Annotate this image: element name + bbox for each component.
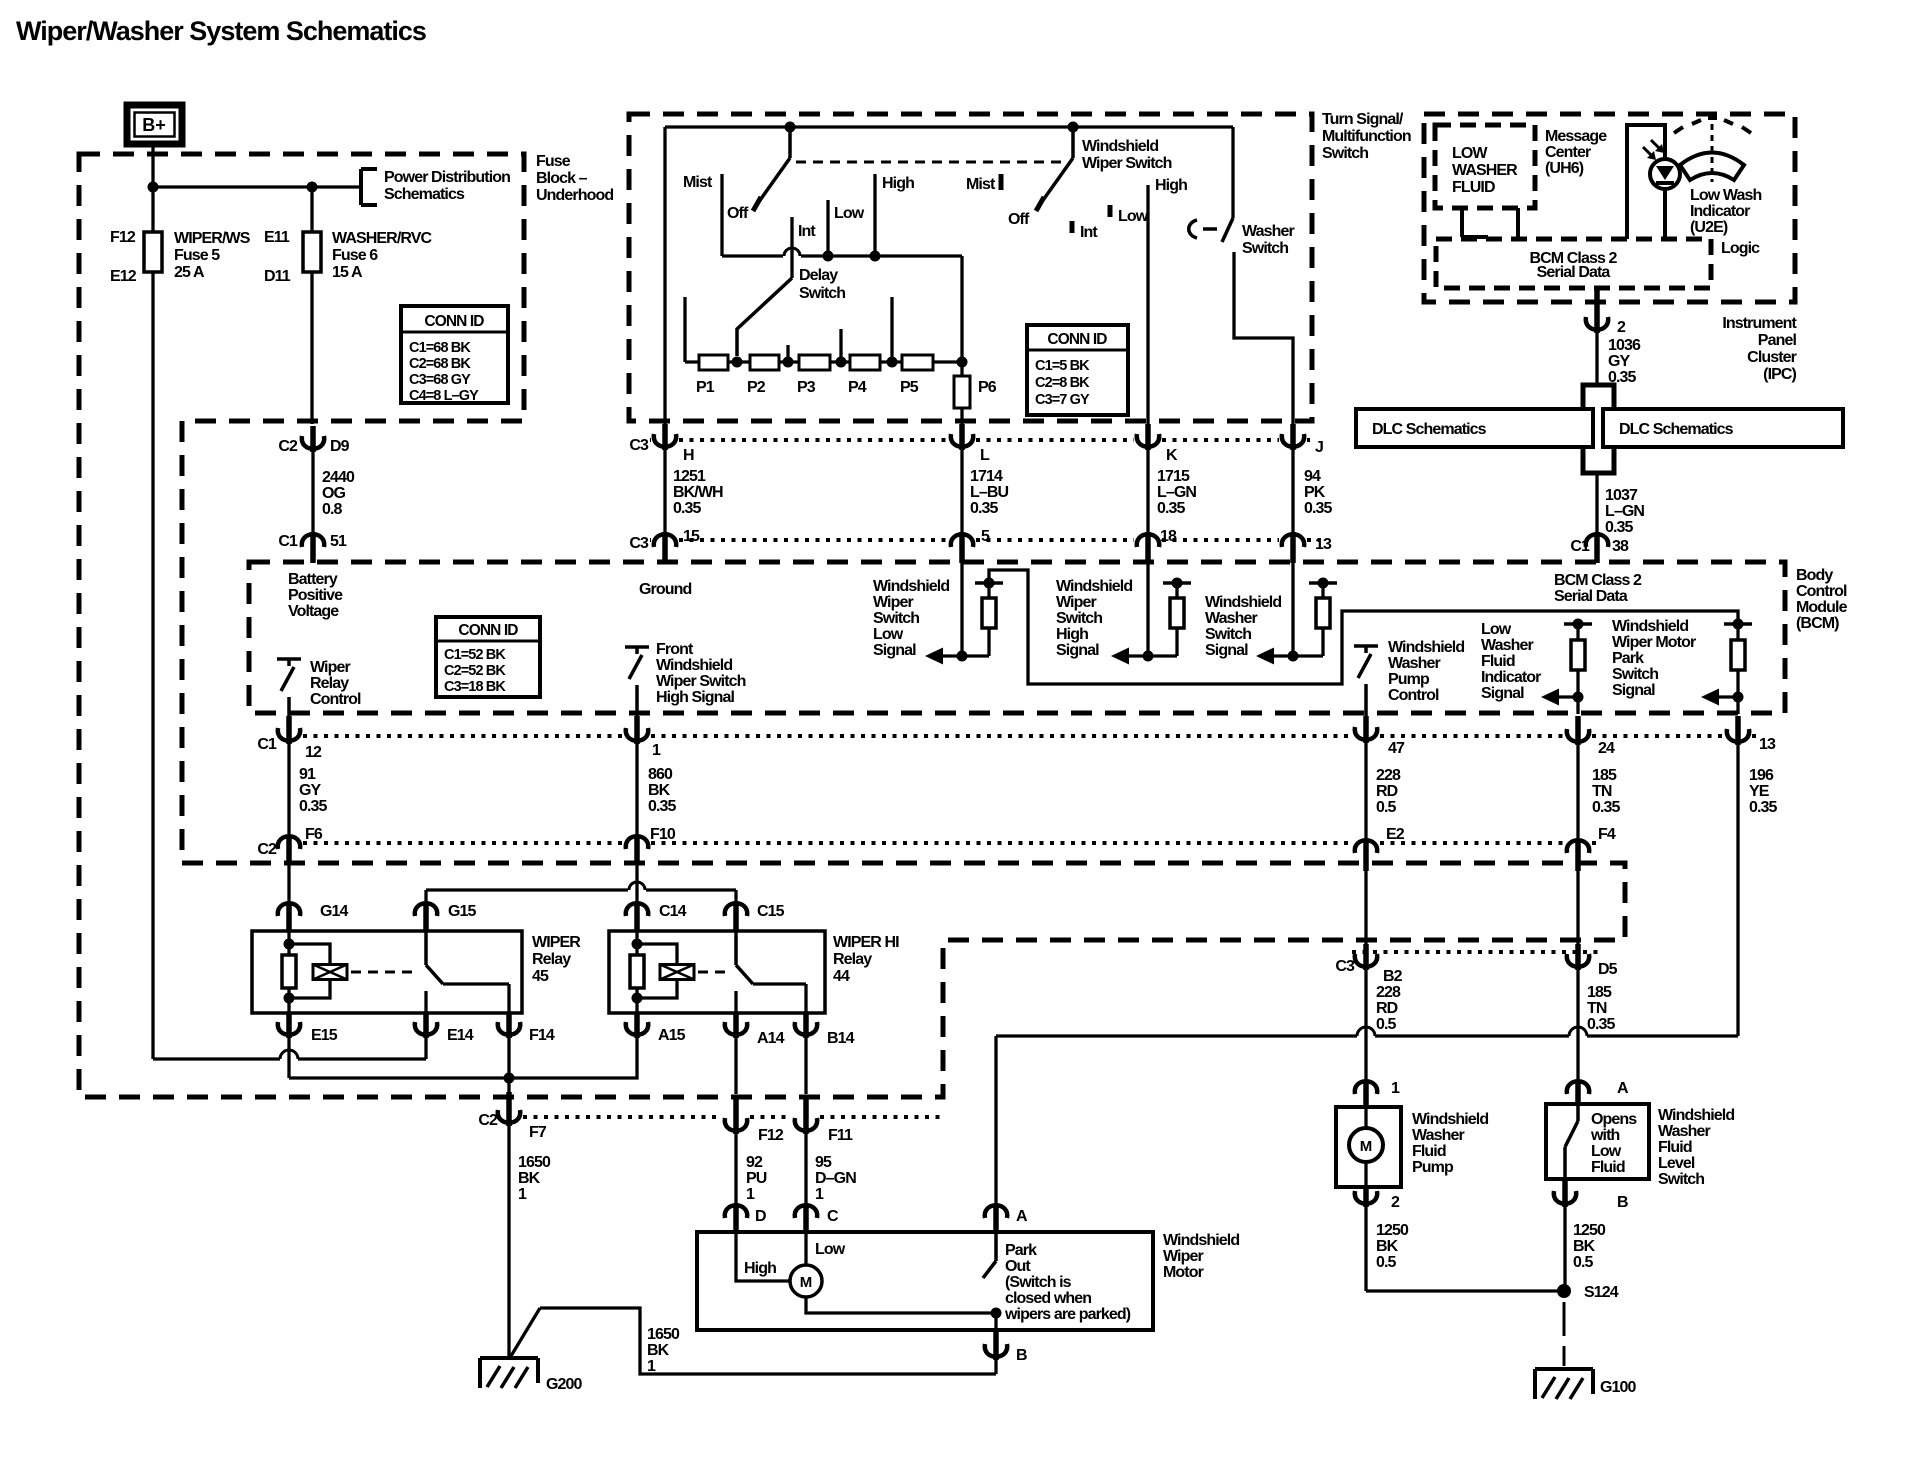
svg-text:Fluid: Fluid [1412,1143,1446,1160]
svg-text:Message: Message [1545,128,1607,145]
svg-text:1037: 1037 [1605,487,1638,504]
fuse block underhood dashed outline [79,154,1625,1097]
svg-text:C3=68 GY: C3=68 GY [409,372,471,388]
svg-text:D9: D9 [330,438,350,455]
pullup 13 [1724,622,1752,626]
svg-text:Windshield: Windshield [1658,1107,1734,1124]
connector stubs [310,426,316,452]
svg-text:Control: Control [1796,583,1847,600]
svg-text:1715: 1715 [1157,468,1190,485]
svg-text:1714: 1714 [970,468,1003,485]
svg-text:Fuse 6: Fuse 6 [332,247,378,264]
svg-text:1250: 1250 [1573,1222,1606,1239]
svg-text:A: A [1617,1080,1629,1097]
svg-text:E12: E12 [110,268,137,285]
washer switch blade [1222,218,1233,242]
wire: pump feed below B2 [1364,969,1367,1080]
svg-text:C3: C3 [629,437,649,454]
svg-text:Level: Level [1658,1155,1695,1172]
svg-text:185: 185 [1592,767,1617,784]
svg-text:Ground: Ground [639,581,691,598]
svg-text:(Switch is: (Switch is [1005,1274,1072,1291]
svg-text:C15: C15 [757,903,785,920]
svg-text:High: High [1155,177,1187,194]
B14 connector [795,1022,817,1035]
svg-text:Wiper Motor: Wiper Motor [1612,634,1696,651]
ipc lamp loop [1627,125,1665,239]
wire 95 D-GN 1 [804,1133,807,1204]
LED arrows [1643,147,1654,158]
resistor P6 [954,376,970,408]
wire 94 PK 0.35 [1291,449,1294,532]
svg-text:0.8: 0.8 [322,501,343,518]
low washer fluid dashed box [1435,125,1535,208]
svg-text:0.5: 0.5 [1376,1016,1397,1033]
dashed wire to G100 [1563,1302,1566,1336]
svg-text:51: 51 [330,533,347,550]
svg-text:Park: Park [1612,650,1644,667]
svg-text:Fluid: Fluid [1658,1139,1692,1156]
svg-text:Battery: Battery [288,571,338,588]
F14 connector [498,1022,520,1035]
svg-text:1: 1 [1391,1080,1400,1097]
CONN ID table (BCM) [436,617,540,697]
svg-text:OG: OG [322,485,346,502]
G14 connector [278,903,300,916]
svg-text:Windshield: Windshield [656,657,732,674]
svg-text:K: K [1166,447,1178,464]
svg-text:860: 860 [648,766,673,783]
svg-text:F6: F6 [305,826,323,843]
svg-text:C1=68 BK: C1=68 BK [409,340,471,356]
svg-text:Center: Center [1545,144,1591,161]
svg-text:Off: Off [727,205,749,222]
svg-text:1: 1 [518,1186,527,1203]
wiper switch 2 blade [1071,127,1075,158]
C connector (motor) [795,1205,817,1218]
svg-text:Control: Control [310,691,361,708]
svg-text:2: 2 [1391,1194,1400,1211]
pullup K [1163,581,1191,585]
svg-text:15: 15 [683,528,700,545]
svg-text:with: with [1590,1127,1620,1144]
svg-text:0.35: 0.35 [1304,500,1333,517]
C2/F6 connector [278,836,300,849]
svg-text:45: 45 [532,968,549,985]
L connector [951,434,973,447]
svg-text:C1: C1 [278,533,298,550]
svg-text:G15: G15 [448,903,477,920]
wire: level switch feed below D5 [1576,969,1579,1080]
svg-text:0.35: 0.35 [1608,369,1637,386]
A connector (motor) [985,1205,1007,1218]
G15 connector [415,903,437,916]
svg-text:S124: S124 [1584,1284,1619,1301]
BCM washer signal wire [1291,563,1294,656]
svg-text:(UH6): (UH6) [1545,160,1584,177]
svg-text:Windshield: Windshield [873,578,949,595]
windshield wiper motor box [697,1232,1153,1330]
svg-text:P4: P4 [848,379,867,396]
svg-text:Windshield: Windshield [1082,138,1158,155]
relay 44 coil loop [637,944,677,966]
svg-text:F10: F10 [650,826,676,843]
svg-text:E15: E15 [311,1027,338,1044]
E2 connector [1355,840,1377,853]
low wash indicator LED [1650,159,1680,189]
pullup L [975,581,1003,585]
park switch blade [983,1261,996,1278]
int contact 1 [790,217,793,278]
svg-text:196: 196 [1749,767,1774,784]
resistor P3 [799,355,830,370]
wiper switch 1 blade [788,127,792,158]
wiper motor M circle [790,1265,822,1297]
svg-text:BK: BK [1376,1238,1399,1255]
svg-text:Mist: Mist [683,174,713,191]
CONN ID table (switch) [1027,325,1128,415]
wire: washer fuse drop [310,187,313,424]
pullup J [1309,581,1337,585]
relay 44 switch [734,931,738,965]
svg-text:BK: BK [648,782,671,799]
svg-text:C2: C2 [278,438,298,455]
svg-text:12: 12 [305,744,322,761]
svg-text:Voltage: Voltage [288,603,339,620]
svg-text:P2: P2 [747,379,766,396]
svg-text:(IPC): (IPC) [1763,366,1796,383]
svg-text:E14: E14 [447,1027,474,1044]
svg-text:Serial Data: Serial Data [1537,264,1611,281]
CONN ID table (fuse block) [401,306,508,403]
wire: F14 down to F7 [507,1037,510,1092]
ground G200 [480,1356,538,1360]
svg-text:Cluster: Cluster [1747,349,1796,366]
svg-text:E11: E11 [264,229,290,246]
svg-text:Washer: Washer [1481,637,1533,654]
relay 45 coil resistor [282,955,296,988]
svg-text:GY: GY [299,782,322,799]
svg-text:Windshield: Windshield [1612,618,1688,635]
svg-text:L–BU: L–BU [970,484,1009,501]
delay switch blade [737,278,792,356]
C3/H connector [654,434,676,447]
svg-text:WIPER/WS: WIPER/WS [174,230,251,247]
wire: bus to P6 [960,256,963,426]
level switch blade [1576,1105,1580,1121]
P4/P5 contact stub [890,297,893,362]
BCM high signal wire [1146,563,1149,656]
wire 1715 L-GN 0.35 [1146,449,1149,532]
svg-text:1: 1 [746,1186,755,1203]
svg-text:G200: G200 [546,1376,583,1393]
svg-text:Int: Int [1080,224,1098,241]
svg-text:Switch: Switch [1205,626,1251,643]
low contact 2 tick [1108,205,1113,217]
svg-text:TN: TN [1587,1000,1607,1017]
svg-text:TN: TN [1592,783,1612,800]
svg-text:C1: C1 [257,736,277,753]
svg-text:Windshield: Windshield [1388,639,1464,656]
svg-text:1251: 1251 [673,468,706,485]
C1/51 connector [302,534,324,547]
wire: B+ horizontal to fuses and power distribution bracket [153,185,361,188]
C3/B2 connector [1355,954,1377,967]
power distribution schematics bracket [359,169,363,205]
svg-text:WIPER: WIPER [532,934,581,951]
svg-text:P1: P1 [696,379,715,396]
svg-text:Park: Park [1005,1242,1037,1259]
svg-text:L: L [980,447,990,464]
bcm class 2 serial data dashed box (ipc) [1436,239,1711,288]
svg-text:Low: Low [873,626,904,643]
5 connector [951,534,973,547]
svg-text:P3: P3 [797,379,816,396]
svg-text:(BCM): (BCM) [1796,615,1839,632]
svg-text:Mist: Mist [966,176,996,193]
wire 92 PU 1 [734,1133,737,1204]
washer pump M circle [1364,1108,1367,1128]
svg-text:0.5: 0.5 [1573,1254,1594,1271]
svg-text:0.35: 0.35 [1592,799,1621,816]
svg-text:228: 228 [1376,767,1401,784]
washer switch wire [1231,127,1234,218]
svg-text:F12: F12 [758,1127,784,1144]
mist contact 2 tick [999,174,1004,190]
resistor P5 [902,355,933,370]
D connector (motor) [725,1205,747,1218]
C3/15 connector [654,534,676,547]
svg-text:0.35: 0.35 [673,500,702,517]
svg-text:closed when: closed when [1005,1290,1091,1307]
wire: washer switch to J [1234,252,1293,426]
svg-text:P6: P6 [978,379,997,396]
svg-text:Switch: Switch [799,285,845,302]
svg-text:Signal: Signal [1056,642,1099,659]
C15 connector [725,903,747,916]
ipc output stub [1594,288,1600,318]
svg-text:Relay: Relay [532,951,571,968]
J connector [1282,434,1304,447]
relay 44 coil solenoid box [660,965,694,980]
relay 44 coil wire [635,931,638,1014]
windshield washer pump control driver [1354,644,1378,648]
relay 44 mech link [698,971,728,974]
svg-text:1: 1 [647,1358,656,1375]
svg-text:0.5: 0.5 [1376,1254,1397,1271]
svg-text:BK: BK [518,1170,541,1187]
svg-text:DLC Schematics: DLC Schematics [1372,421,1487,438]
BCM pullup rail [989,570,1738,684]
svg-text:Int: Int [798,223,816,240]
47 connector [1355,727,1377,740]
resistor chain [685,360,962,363]
svg-text:CONN ID: CONN ID [424,313,484,330]
svg-text:D–GN: D–GN [815,1170,856,1187]
svg-text:0.35: 0.35 [970,500,999,517]
B connector (level switch) [1554,1191,1576,1204]
resistor P1 [699,355,728,370]
wire 185 TN 0.35 (upper) [1576,744,1579,839]
svg-text:Wiper Switch: Wiper Switch [1082,155,1172,172]
resistor P4 [850,355,880,370]
svg-text:1650: 1650 [647,1326,680,1343]
svg-text:FLUID: FLUID [1452,179,1495,196]
svg-text:wipers are parked): wipers are parked) [1004,1306,1131,1323]
svg-text:1650: 1650 [518,1154,551,1171]
svg-text:Signal: Signal [1481,685,1524,702]
wire 1714 L-BU 0.35 [960,449,963,532]
svg-text:Switch: Switch [1056,610,1102,627]
svg-text:2: 2 [1617,319,1626,336]
park signal horizontal run [994,1036,997,1204]
wire 1037 L-GN 0.35 [1595,473,1598,532]
svg-text:LOW: LOW [1452,145,1488,162]
P3/P4 contact stub [839,329,842,362]
svg-text:0.35: 0.35 [1749,799,1778,816]
fuse E11/D11 WASHER/RVC Fuse 6 [303,232,321,272]
svg-text:M: M [1360,1138,1373,1155]
svg-text:F4: F4 [1598,826,1616,843]
low contact 1 [826,200,829,256]
relay 44 coil resistor [630,955,644,988]
svg-text:Positive: Positive [288,587,343,604]
svg-text:CONN ID: CONN ID [1047,331,1107,348]
svg-text:C1: C1 [1570,538,1590,555]
svg-text:Wiper: Wiper [1163,1248,1203,1265]
turn signal multifunction switch dashed box [629,114,1312,421]
svg-text:B+: B+ [142,115,166,135]
svg-text:Body: Body [1796,567,1833,584]
wire 228 RD 0.5 (upper) [1364,742,1367,839]
switch 1 common bus [722,254,783,257]
relay 45 coil solenoid box [313,965,347,980]
high contact 2 / wire to K [1146,185,1149,426]
svg-text:H: H [683,447,694,464]
svg-text:Wiper: Wiper [1056,594,1096,611]
pullup 24 [1564,622,1592,626]
svg-text:38: 38 [1612,538,1629,555]
svg-text:G14: G14 [320,903,349,920]
wire: B+ rail down left side [151,144,154,1059]
svg-text:185: 185 [1587,984,1612,1001]
svg-text:Switch: Switch [873,610,919,627]
windshield washer fluid pump box [1336,1107,1401,1187]
wire: motor B to ground run [994,1359,997,1374]
splice S124 [1557,1284,1571,1298]
svg-text:Signal: Signal [873,642,916,659]
svg-text:B2: B2 [1383,968,1403,985]
wire 1036 GY 0.35 [1595,332,1598,385]
svg-text:47: 47 [1388,740,1405,757]
svg-text:Low: Low [1591,1143,1622,1160]
svg-text:Schematics: Schematics [384,186,465,203]
svg-text:Low Wash: Low Wash [1690,187,1761,204]
wire 228 RD 0.5 (lower) [1364,870,1367,946]
park switch wire [994,1233,998,1261]
relay 45 mech link [351,971,418,974]
svg-text:YE: YE [1749,783,1770,800]
svg-text:Out: Out [1005,1258,1031,1275]
svg-text:BK: BK [647,1342,670,1359]
C2/D9 connector [302,436,324,449]
svg-text:C2: C2 [257,841,277,858]
relay 45 coil wire [287,931,290,1014]
resistor P2 [750,355,779,370]
svg-text:High Signal: High Signal [656,689,735,706]
18 connector [1137,534,1159,547]
svg-text:High: High [744,1260,776,1277]
svg-text:Underhood: Underhood [536,187,613,204]
svg-text:A: A [1016,1208,1028,1225]
svg-text:High: High [1056,626,1088,643]
svg-text:13: 13 [1315,536,1332,553]
instrument panel cluster dashed box [1424,114,1795,302]
2 connector (pump) [1355,1191,1377,1204]
svg-text:C1=5 BK: C1=5 BK [1035,358,1090,374]
F4 connector [1567,840,1589,853]
svg-text:Fluid: Fluid [1481,653,1515,670]
svg-text:C1=52 BK: C1=52 BK [444,647,506,663]
wire 185 TN 0.35 (lower) [1576,870,1579,946]
dlc branch fork top [1583,385,1614,409]
svg-text:C3: C3 [629,535,649,552]
svg-text:0.5: 0.5 [1376,799,1397,816]
svg-text:C2=68 BK: C2=68 BK [409,356,471,372]
svg-text:Switch: Switch [1322,145,1368,162]
svg-text:24: 24 [1598,740,1615,757]
svg-text:25 A: 25 A [174,264,205,281]
svg-text:5: 5 [981,528,990,545]
svg-text:95: 95 [815,1154,832,1171]
svg-text:Fuse 5: Fuse 5 [174,247,220,264]
svg-text:D11: D11 [264,268,291,285]
C1/12 connector [278,728,300,741]
svg-text:1036: 1036 [1608,337,1641,354]
B+ battery symbol [127,105,182,144]
body control module dashed box [249,562,1785,713]
switch link dashed [796,161,1066,164]
mist contact 1 [720,174,723,256]
svg-text:Block –: Block – [536,170,588,187]
wiper motor low lead [804,1233,807,1265]
svg-text:C2=52 BK: C2=52 BK [444,663,506,679]
svg-text:Washer: Washer [1412,1127,1464,1144]
svg-text:Indicator: Indicator [1481,669,1541,686]
C2/F7 connector [498,1110,520,1123]
wire: F10 to relay C14 [635,863,638,902]
svg-text:Wiper Switch: Wiper Switch [656,673,746,690]
wire: E15 down and right to A15 [287,1037,290,1078]
svg-text:1: 1 [652,742,661,759]
svg-text:M: M [800,1274,813,1291]
low washer fluid box stubs [1460,208,1464,237]
svg-text:0.35: 0.35 [1605,519,1634,536]
wire 2440 OG 0.8 [311,452,314,532]
svg-text:B: B [1016,1347,1027,1364]
svg-text:C2: C2 [478,1112,498,1129]
E15 connector [278,1022,300,1035]
F12 connector [725,1118,747,1131]
washer switch contact symbol [1189,220,1197,238]
svg-text:C4=8 L–GY: C4=8 L–GY [409,388,479,404]
svg-text:A15: A15 [658,1027,686,1044]
front windshield wiper switch high signal driver [625,645,649,649]
svg-text:Washer: Washer [1242,223,1294,240]
F10 connector [626,836,648,849]
svg-text:Switch: Switch [1612,666,1658,683]
ground G100 [1535,1367,1593,1371]
